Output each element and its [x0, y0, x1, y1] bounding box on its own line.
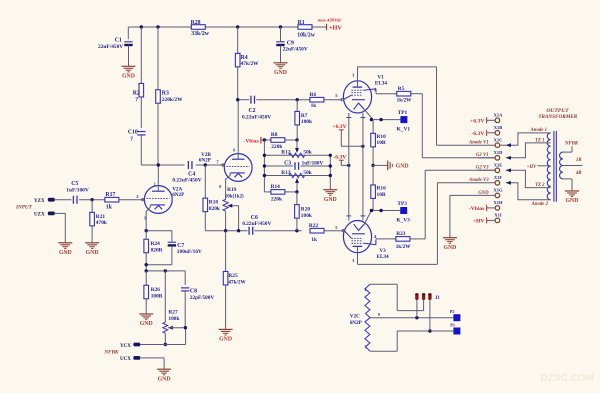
- svg-text:NFBK: NFBK: [564, 142, 579, 147]
- svg-text:GND: GND: [566, 198, 579, 204]
- connector pin X1E: [494, 163, 503, 173]
- node V1k-R10: [370, 118, 373, 121]
- node bead1: [415, 316, 418, 319]
- wire X1G gnd: [450, 195, 495, 237]
- svg-text:1R: 1R: [576, 158, 582, 163]
- wire cathode row V2B: [205, 230, 301, 232]
- svg-text:10R: 10R: [377, 192, 386, 198]
- power +6.3V X1A: [470, 117, 495, 124]
- svg-text:GND: GND: [324, 197, 337, 203]
- resistor R10: [371, 120, 386, 166]
- svg-text:C5: C5: [71, 181, 78, 187]
- inductor T1 secondary: [560, 152, 563, 179]
- wire sec top tap: [563, 146, 572, 152]
- label 1R: [576, 158, 582, 163]
- terminal YZX: [34, 198, 55, 204]
- node R10-R16-gnd: [371, 164, 374, 167]
- svg-text:10k/2w: 10k/2w: [297, 33, 316, 39]
- svg-text:X1H: X1H: [494, 200, 503, 205]
- svg-text:YZX: YZX: [34, 199, 45, 204]
- capacitor C3: [264, 160, 330, 169]
- op V2A tube: [144, 165, 172, 231]
- wire V2C top: [370, 284, 423, 310]
- svg-text:1uF/100V: 1uF/100V: [66, 187, 89, 193]
- svg-text:R4: R4: [241, 55, 248, 61]
- node bus-R2: [140, 25, 143, 28]
- pin ring V2B g: [222, 164, 224, 166]
- node R27 bottom: [164, 343, 167, 346]
- svg-text:GND: GND: [122, 74, 135, 80]
- svg-text:33k/2w: 33k/2w: [191, 31, 210, 37]
- svg-text:R23: R23: [396, 231, 406, 237]
- resistor R25: [223, 231, 246, 330]
- svg-text:X1G: X1G: [494, 188, 503, 193]
- label OUTPUT TRANSFORMER: [538, 108, 577, 120]
- svg-text:820R: 820R: [151, 247, 163, 253]
- label NFBK sec: [564, 142, 579, 147]
- svg-text:8: 8: [219, 184, 221, 189]
- svg-text:C3: C3: [284, 160, 291, 166]
- svg-text:GND: GND: [140, 321, 153, 327]
- ground X1G: [443, 238, 457, 251]
- svg-text:X1C: X1C: [494, 137, 503, 142]
- power +6.3V heater: [332, 124, 363, 146]
- svg-text:GND: GND: [86, 250, 99, 256]
- capacitor C10: [128, 129, 146, 165]
- wire V1 plate to X1C: [358, 67, 495, 145]
- svg-text:R14: R14: [271, 184, 281, 190]
- node V3k-R16: [370, 209, 373, 212]
- svg-text:-6.3V: -6.3V: [471, 131, 484, 137]
- pin 5 V3: [335, 225, 338, 230]
- wire V1 g2: [376, 89, 397, 94]
- svg-text:R17: R17: [105, 192, 115, 198]
- wire R5 to X1D: [411, 94, 495, 158]
- node C2-R6-R7: [296, 98, 299, 101]
- node R12 l: [263, 154, 266, 157]
- pin ring V2A g: [142, 199, 144, 201]
- svg-text:100R: 100R: [151, 293, 163, 299]
- svg-text:100uF/16V: 100uF/16V: [177, 249, 202, 255]
- resistor R18: [203, 165, 220, 231]
- label 4R: [575, 171, 582, 176]
- terminal UCX: [120, 356, 140, 362]
- ground UCX: [157, 369, 171, 382]
- capacitor C2: [242, 96, 271, 121]
- label R26: [151, 287, 163, 299]
- svg-text:10k(1k2): 10k(1k2): [225, 195, 244, 200]
- resistor R4: [235, 27, 259, 100]
- svg-text:47k/2W: 47k/2W: [228, 279, 246, 285]
- wire tap Anode2: [506, 181, 551, 200]
- transformer core: [554, 131, 556, 202]
- terminal YCX: [120, 343, 140, 349]
- svg-text:NFBK: NFBK: [103, 350, 119, 356]
- svg-text:50k: 50k: [303, 170, 311, 176]
- svg-text:R12: R12: [281, 150, 291, 156]
- svg-text:X1B: X1B: [494, 125, 503, 130]
- svg-text:K_V1: K_V1: [397, 127, 411, 133]
- resistor R7: [295, 100, 312, 140]
- resistor R17: [105, 192, 144, 211]
- wire YCX row: [140, 344, 185, 346]
- svg-text:+HV: +HV: [329, 24, 342, 31]
- wire heater f1: [346, 113, 351, 221]
- capacitor C4: [172, 161, 201, 184]
- capacitor C9: [276, 27, 308, 63]
- capacitor C8: [181, 288, 214, 328]
- node R13 r: [329, 174, 332, 177]
- connector pin X1A: [494, 113, 503, 123]
- potentiometer R19: [223, 187, 244, 231]
- label AnodeV1 X1C: [468, 141, 489, 146]
- label NFBK: [103, 350, 119, 356]
- label TZ1: [535, 138, 544, 143]
- ferrite bead J1a: [415, 293, 418, 318]
- pin 2 V2A: [136, 194, 139, 199]
- wire V1 grid: [341, 99, 343, 101]
- svg-text:3: 3: [352, 258, 354, 263]
- label Anode1: [530, 128, 547, 133]
- svg-text:C8: C8: [190, 289, 197, 295]
- node NFB-R27: [164, 269, 167, 272]
- resistor R14: [264, 184, 297, 202]
- resistor R5: [397, 86, 413, 103]
- node R13 l: [263, 174, 266, 177]
- node R27 wiper: [184, 326, 187, 329]
- resistor R16: [371, 165, 386, 210]
- svg-text:R19: R19: [227, 187, 237, 193]
- svg-text:R20: R20: [301, 207, 311, 213]
- label AnodeV3 X1F: [468, 178, 489, 183]
- svg-text:100k: 100k: [301, 213, 312, 219]
- node R14-R20: [295, 190, 298, 193]
- svg-text:GND: GND: [396, 164, 409, 170]
- node C5-R17-R21: [90, 198, 93, 201]
- svg-text:6: 6: [233, 148, 235, 153]
- label +HV tap: [527, 165, 537, 170]
- svg-text:R26: R26: [151, 287, 161, 293]
- svg-text:X1E: X1E: [494, 163, 503, 168]
- svg-text:1k: 1k: [311, 237, 317, 243]
- testpoint TP1: [397, 110, 411, 132]
- wire V3 g2: [376, 239, 396, 245]
- svg-text:+HV: +HV: [473, 219, 485, 225]
- connector pin X1C: [494, 137, 503, 147]
- label -Vbias left: [244, 137, 265, 145]
- svg-text:10R: 10R: [377, 140, 386, 146]
- svg-text:R25: R25: [228, 273, 238, 279]
- svg-text:X1F: X1F: [494, 175, 502, 180]
- wire tap TZ1: [506, 143, 551, 160]
- svg-text:DZSC.COM: DZSC.COM: [541, 373, 594, 384]
- ground R21: [85, 243, 99, 256]
- node C3 l: [263, 164, 266, 167]
- svg-text:GND: GND: [274, 70, 287, 76]
- power +HV X1I: [473, 217, 495, 224]
- svg-text:R8: R8: [271, 132, 278, 138]
- svg-text:TP3: TP3: [397, 201, 407, 207]
- tube V2C heater: [365, 284, 380, 351]
- power +HV top: [327, 24, 343, 32]
- svg-text:47k/2W: 47k/2W: [241, 61, 260, 67]
- svg-text:+HV: +HV: [527, 165, 537, 170]
- svg-text:R3: R3: [162, 90, 169, 96]
- node bus-C9: [279, 25, 282, 28]
- wire V2A cathode row: [146, 230, 172, 232]
- resistor R1: [297, 20, 316, 38]
- node R20-row: [295, 229, 298, 232]
- node V3k-tp: [379, 209, 382, 212]
- resistor R23: [396, 231, 412, 250]
- pin 7 V2B: [216, 160, 219, 165]
- svg-text:P1: P1: [450, 323, 455, 328]
- pin 4 V3: [374, 234, 377, 244]
- svg-text:?: ?: [130, 136, 133, 142]
- node bus-R4: [236, 25, 239, 28]
- node V1k-tp: [379, 118, 382, 121]
- terminal UZX: [34, 212, 55, 218]
- svg-text:R27: R27: [168, 310, 178, 316]
- svg-text:0.22uF/450V: 0.22uF/450V: [242, 114, 271, 120]
- node R4-V2Bplate: [236, 98, 239, 101]
- svg-text:3: 3: [352, 72, 354, 77]
- wire V2C mid: [370, 317, 453, 319]
- svg-text:GND: GND: [158, 376, 171, 382]
- wire heater f2 v3 tick: [360, 215, 365, 217]
- svg-text:+6.3V: +6.3V: [470, 119, 484, 125]
- svg-text:100k: 100k: [301, 119, 312, 125]
- wire right rail: [329, 155, 331, 189]
- node wiper: [237, 229, 240, 232]
- svg-text:6N2P: 6N2P: [172, 192, 185, 198]
- svg-text:4R: 4R: [575, 171, 582, 176]
- svg-text:22uF/450V: 22uF/450V: [283, 47, 308, 53]
- capacitor C7: [146, 231, 202, 265]
- ground C9: [274, 63, 288, 76]
- wire UCX-gnd: [140, 358, 164, 369]
- node bus-R3: [156, 25, 159, 28]
- connector pin X1D: [494, 150, 503, 160]
- label max420Vdc: [318, 18, 342, 23]
- connector pin X1I: [494, 213, 501, 223]
- resistor R20: [295, 192, 312, 231]
- op V2B tube: [219, 100, 252, 200]
- svg-text:C1: C1: [115, 37, 122, 43]
- svg-text:22pF/500V: 22pF/500V: [190, 295, 214, 301]
- power -6.3V heater: [333, 155, 348, 166]
- power -Vbias X1H: [469, 205, 495, 212]
- potentiometer R12: [264, 140, 330, 158]
- svg-text:UZX: UZX: [34, 212, 45, 217]
- svg-text:220k: 220k: [271, 196, 282, 202]
- wire B+ bus: [128, 27, 326, 39]
- pin 4 V1: [374, 87, 377, 92]
- wire UZX-gnd: [55, 213, 66, 242]
- svg-text:R13: R13: [281, 170, 291, 176]
- wire sec bot tap: [563, 179, 572, 191]
- label V3: [377, 248, 390, 260]
- wire V3 plate to X1F: [358, 183, 495, 265]
- svg-text:C10: C10: [128, 129, 138, 135]
- wire NFB row: [146, 271, 185, 285]
- resistor R28: [191, 20, 210, 37]
- svg-text:R22: R22: [309, 223, 319, 229]
- svg-text:9: 9: [378, 313, 380, 317]
- power -6.3V X1B: [471, 130, 494, 137]
- ground R25: [219, 329, 233, 342]
- svg-text:6N2P: 6N2P: [199, 157, 212, 163]
- wire V1 cathode row: [371, 119, 400, 121]
- testpoint TP3: [396, 201, 410, 223]
- label V2C: [350, 313, 363, 326]
- node C3 r: [329, 164, 332, 167]
- svg-text:C2: C2: [248, 108, 255, 114]
- label V1: [375, 74, 388, 86]
- capacitor C1: [98, 37, 133, 66]
- connector pin X1F: [494, 175, 502, 185]
- label TZ2: [535, 183, 545, 188]
- svg-text:1: 1: [154, 182, 156, 187]
- potentiometer R27: [163, 271, 186, 345]
- capacitor C5: [55, 181, 105, 204]
- node heater-: [347, 164, 350, 167]
- ferrite bead J1c: [428, 293, 431, 331]
- resistor R2: [133, 27, 144, 128]
- node plate-R3: [157, 163, 160, 166]
- svg-text:R10: R10: [377, 134, 387, 140]
- svg-text:UCX: UCX: [120, 357, 131, 362]
- resistor R26: [144, 271, 149, 314]
- connector pin X1H: [494, 200, 503, 210]
- node V2A-k: [145, 229, 148, 232]
- svg-text:Anode V1: Anode V1: [468, 141, 489, 146]
- ferrite bead J1b: [422, 293, 425, 310]
- svg-text:R7: R7: [301, 113, 308, 119]
- svg-text:R2: R2: [133, 90, 140, 96]
- svg-text:1k: 1k: [311, 103, 317, 109]
- wire left rail: [263, 140, 265, 192]
- inductor T1 primary: [547, 133, 550, 200]
- svg-text:Anode 2: Anode 2: [531, 202, 549, 207]
- op V3 tube: [343, 211, 376, 263]
- svg-text:C7: C7: [177, 243, 184, 249]
- svg-text:YCX: YCX: [120, 344, 131, 349]
- wire V3 cathode row: [371, 210, 400, 212]
- svg-text:5: 5: [365, 346, 367, 350]
- pin 5 V1: [335, 93, 338, 98]
- wire V2C bottom: [370, 331, 453, 351]
- ground UZX: [58, 243, 72, 256]
- resistor R22: [309, 223, 343, 243]
- resistor R6: [310, 92, 342, 109]
- label G2V3 X1E: [476, 166, 495, 171]
- node bead3: [428, 329, 431, 332]
- wire V2A plate row: [141, 164, 224, 166]
- node R12 r: [329, 154, 332, 157]
- svg-text:R24: R24: [151, 241, 161, 247]
- label V2A: [172, 187, 185, 199]
- svg-text:GND: GND: [219, 337, 232, 343]
- svg-text:X1D: X1D: [494, 150, 503, 155]
- connector pin X1G: [494, 188, 503, 198]
- svg-text:R5: R5: [398, 86, 405, 92]
- svg-text:EL34: EL34: [377, 254, 390, 260]
- svg-text:GND: GND: [443, 245, 456, 251]
- wire R23 to X1E: [410, 170, 495, 239]
- svg-text:1k/2W: 1k/2W: [397, 97, 413, 103]
- label J1: [435, 296, 441, 301]
- label G2V1 X1D: [476, 153, 495, 158]
- svg-text:P2: P2: [450, 309, 455, 314]
- capacitor C6: [242, 215, 271, 235]
- wire C2 row: [238, 99, 310, 101]
- label V2B: [199, 152, 212, 164]
- connector P1: [450, 323, 460, 335]
- svg-text:R16: R16: [377, 186, 387, 192]
- wire V3 grid: [342, 230, 344, 232]
- ground C1: [122, 66, 136, 79]
- watermark: [541, 373, 594, 384]
- svg-text:C4: C4: [188, 171, 195, 177]
- svg-text:6N2P: 6N2P: [350, 320, 363, 326]
- svg-text:max 420Vdc: max 420Vdc: [318, 18, 342, 23]
- svg-text:1k: 1k: [106, 205, 113, 211]
- wire sec mid tap: [563, 165, 583, 167]
- resistor R3: [156, 27, 183, 165]
- resistor R21: [90, 200, 107, 243]
- potentiometer R13: [264, 170, 330, 192]
- node NFB-a: [145, 269, 148, 272]
- svg-text:R1: R1: [298, 20, 305, 26]
- label GND X1G: [478, 191, 489, 196]
- svg-text:R18: R18: [209, 200, 219, 206]
- svg-text:1k/2W: 1k/2W: [396, 244, 412, 250]
- svg-text:0.22uF/450V: 0.22uF/450V: [242, 221, 271, 227]
- node C4-R18: [204, 163, 207, 166]
- ground right rail: [323, 190, 337, 203]
- ground mid side: [373, 161, 408, 171]
- wire heater f2: [360, 113, 365, 221]
- ground R26: [139, 314, 153, 327]
- svg-text:1uF/100V: 1uF/100V: [302, 160, 324, 166]
- wire heater f1 v3 tick: [346, 215, 351, 217]
- svg-text:22uF/450V: 22uF/450V: [98, 44, 123, 50]
- svg-text:INPUT: INPUT: [15, 204, 33, 210]
- connector pin X1B: [494, 125, 503, 135]
- svg-text:100k: 100k: [168, 316, 179, 322]
- resistor R8: [264, 132, 297, 150]
- label Anode2: [531, 202, 549, 207]
- svg-text:4: 4: [365, 288, 367, 292]
- svg-text:-Vbias: -Vbias: [244, 138, 259, 144]
- wire tap Anode1: [500, 133, 550, 147]
- svg-text:3: 3: [144, 215, 146, 220]
- svg-text:J1: J1: [435, 296, 441, 301]
- node heater+: [361, 145, 364, 148]
- svg-text:R28: R28: [191, 20, 201, 26]
- node R8-left: [263, 138, 266, 141]
- resistor R24: [144, 231, 163, 271]
- label INPUT: [15, 204, 33, 210]
- svg-text:?: ?: [135, 97, 138, 103]
- svg-text:K_V3: K_V3: [396, 218, 410, 224]
- op V1 tube: [343, 72, 376, 119]
- svg-text:GND: GND: [59, 250, 72, 256]
- connector P2: [450, 309, 461, 321]
- wire tap TZ2: [506, 168, 551, 187]
- node R19-R25: [224, 229, 227, 232]
